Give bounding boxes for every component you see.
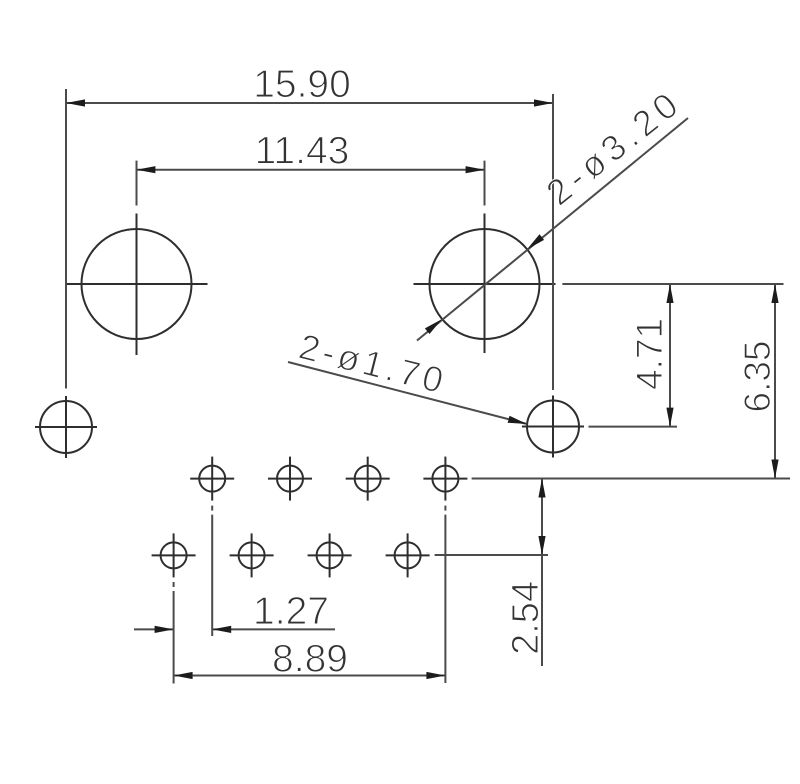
leader line for 2-dia3.20	[417, 118, 688, 341]
extension line y554.5 row2 level	[435, 554, 548, 556]
pin hole row2 pin2	[239, 542, 265, 568]
arrow dim 15.90 left	[66, 99, 85, 106]
svg-text:15.90: 15.90	[253, 63, 351, 106]
extension line right x553 from dim 15.90 down to small hole	[552, 94, 554, 390]
centerline cross big circle left vertical	[136, 214, 138, 356]
pin hole row2 pin3	[317, 542, 343, 568]
dim line 2.54 vertical with extension below	[541, 479, 543, 667]
pin hole row2 pin1	[161, 542, 187, 568]
arrow leader 1.70 (points right-down at small circle edge)	[508, 416, 527, 424]
extension line below pin row2 pin1	[173, 582, 175, 587]
pin hole row2 pin4	[395, 542, 421, 568]
arrow leader 3.20 upper (points down-left at circle edge)	[527, 234, 544, 249]
small hole right	[527, 401, 579, 453]
centerline cross big circle right horizontal	[414, 283, 556, 285]
extension line x136.5 for dim 11.43	[136, 161, 138, 206]
pin hole row1 pin1	[199, 466, 225, 492]
svg-text:4.71: 4.71	[629, 318, 670, 390]
arrow dim 8.89 right	[426, 672, 445, 679]
centerline cross big circle left horizontal	[66, 283, 208, 285]
arrow dim 6.35 top	[771, 284, 778, 303]
arrow dim 11.43 left	[136, 166, 155, 173]
arrow dim 2.54 top	[538, 479, 545, 498]
extension line below pin row1 pin4	[444, 506, 446, 511]
centerline cross big circle right vertical	[484, 214, 486, 354]
arrow dim 4.71 bottom	[666, 408, 673, 427]
extension line x484.5 for dim 11.43	[484, 161, 486, 206]
arrow dim 11.43 right	[466, 166, 485, 173]
mounting hole big circle left	[82, 229, 192, 339]
centerline cross small hole left vertical	[65, 396, 67, 458]
dim line 8.89	[174, 675, 446, 677]
svg-text:1.27: 1.27	[253, 590, 329, 633]
small hole left	[40, 401, 92, 453]
dim 1.27 left outside arrow tail	[134, 628, 174, 630]
dim line 6.35 vertical	[774, 284, 776, 479]
arrow dim 1.27 left pointing right	[155, 626, 174, 633]
arrow dim 2.54 bottom	[538, 536, 545, 555]
svg-text:6.35: 6.35	[737, 340, 778, 412]
extension line y478.5 row1 level	[472, 478, 790, 480]
pin hole row1 pin3	[355, 466, 381, 492]
dim 1.27 line with text overhang	[212, 628, 335, 630]
centerline cross small hole right vertical	[552, 396, 554, 458]
arrow dim 6.35 bottom	[771, 460, 778, 479]
centerline cross small hole left horizontal	[35, 426, 97, 428]
arrow dim 8.89 left	[174, 672, 193, 679]
leader line for 2-dia1.70	[288, 362, 527, 424]
extension line left x66 from dim 15.90 down to small hole	[65, 89, 67, 389]
dim line 4.71 vertical	[669, 284, 671, 427]
pin hole row1 pin4	[432, 466, 458, 492]
extension line y284 right for dims 4.71 and 6.35	[562, 283, 783, 285]
arrow dim 1.27 right pointing left	[212, 626, 231, 633]
arrow dim 4.71 top	[666, 284, 673, 303]
svg-text:2.54: 2.54	[505, 581, 547, 655]
arrow dim 15.90 right	[534, 99, 553, 106]
centerline cross small hole right horizontal	[522, 426, 584, 428]
dim line 11.43	[136, 169, 484, 171]
pin hole row1 pin2	[277, 466, 303, 492]
svg-text:8.89: 8.89	[272, 638, 348, 681]
mounting hole big circle right	[430, 229, 540, 339]
svg-text:11.43: 11.43	[255, 130, 350, 173]
dim line 15.90	[66, 102, 553, 104]
extension line y426.6 for dim 4.71	[589, 426, 678, 428]
extension line below pin row1 pin1	[211, 506, 213, 511]
arrow leader 3.20 lower (points up-right at circle edge)	[425, 319, 442, 334]
